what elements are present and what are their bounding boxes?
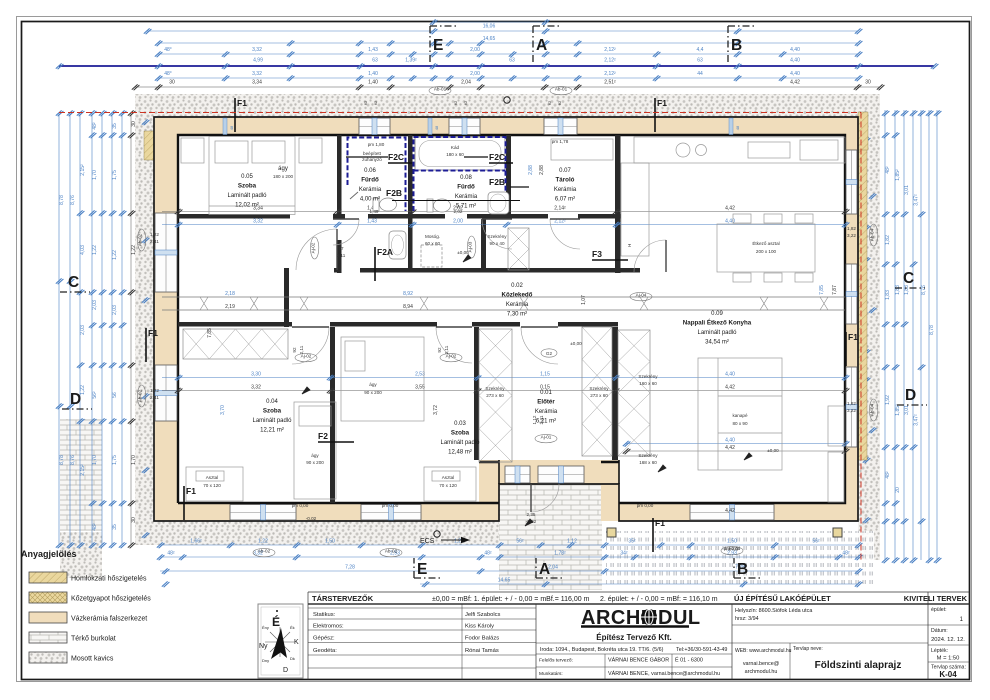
right dimension chain	[882, 110, 942, 563]
porch recess head wall	[479, 460, 619, 484]
svg-text:7,87: 7,87	[832, 285, 838, 295]
wall v3 bath008|tarolo	[506, 135, 511, 219]
F3	[592, 249, 628, 260]
svg-text:2,03: 2,03	[92, 300, 98, 310]
svg-text:-0,02: -0,02	[306, 516, 317, 521]
scattered ticks right margin	[863, 137, 877, 523]
circle vent top	[504, 97, 510, 103]
red dashed line right	[860, 113, 862, 561]
interior dim line y391	[162, 390, 845, 392]
svg-text:3,01: 3,01	[904, 185, 910, 195]
svg-text:1,40: 1,40	[368, 80, 378, 86]
svg-text:56: 56	[112, 392, 118, 398]
sideboard right 1	[828, 406, 844, 446]
svg-text:1,12: 1,12	[567, 539, 577, 545]
door room 0.04	[292, 327, 329, 364]
F1 top-left	[235, 98, 247, 132]
svg-text:H: H	[627, 244, 632, 247]
svg-text:90 x 200: 90 x 200	[364, 390, 382, 395]
gravel block bottom-left corner	[60, 532, 102, 578]
corridor beam lines	[162, 296, 845, 298]
svg-text:8,78: 8,78	[929, 325, 935, 335]
section marker C right	[895, 270, 925, 288]
window top 3	[544, 118, 577, 135]
svg-text:3,30: 3,30	[251, 372, 261, 378]
svg-text:35: 35	[112, 123, 118, 129]
svg-text:Kerámia: Kerámia	[535, 409, 558, 415]
F1 top-right	[655, 98, 667, 132]
svg-text:F2A: F2A	[377, 247, 393, 257]
bathtub 0.08	[415, 137, 505, 170]
svg-text:G2: G2	[546, 351, 553, 356]
F1 bottom-mid	[653, 518, 665, 552]
wall corridor top h2	[334, 268, 340, 273]
svg-text:4,40: 4,40	[790, 71, 800, 77]
svg-text:E: E	[433, 37, 443, 54]
legend item 5	[29, 652, 114, 663]
svg-text:4,99: 4,99	[253, 58, 263, 64]
svg-text:3,70: 3,70	[220, 405, 226, 415]
svg-text:2,88: 2,88	[528, 165, 534, 175]
svg-text:62: 62	[373, 100, 378, 105]
svg-text:Fürdő: Fürdő	[361, 177, 379, 184]
svg-text:30: 30	[865, 80, 871, 86]
insulation jog top-right	[858, 112, 868, 150]
svg-text:Nappali Étkező Konyha: Nappali Étkező Konyha	[683, 319, 752, 327]
svg-text:77: 77	[338, 246, 344, 251]
window left 1 (room 0.05)	[155, 213, 177, 292]
room label 0.06	[359, 168, 382, 203]
svg-text:F1: F1	[848, 332, 858, 342]
gravel strip left	[135, 94, 154, 545]
svg-text:0.05: 0.05	[241, 174, 253, 180]
F2B line 1	[392, 200, 520, 202]
wall junction marks top	[223, 118, 227, 135]
svg-text:Ab-01: Ab-01	[434, 87, 447, 92]
ARCHMODUL logo	[581, 607, 701, 629]
svg-text:1,22: 1,22	[150, 232, 159, 237]
svg-text:3,72: 3,72	[433, 405, 439, 415]
svg-text:Aj-01: Aj-01	[541, 435, 552, 440]
window left 2 (room 0.04)	[155, 365, 177, 421]
svg-text:Kerámia: Kerámia	[455, 194, 478, 200]
svg-text:Ab-02: Ab-02	[138, 233, 143, 246]
svg-text:62: 62	[453, 100, 458, 105]
svg-text:90 x 40: 90 x 40	[489, 241, 505, 246]
door tag Aj-01 eloter	[535, 434, 557, 442]
porch door 2	[538, 466, 584, 483]
svg-text:16,06: 16,06	[483, 24, 496, 30]
svg-text:30: 30	[131, 121, 137, 127]
svg-text:Kerámia: Kerámia	[359, 187, 382, 193]
interior dim line y378	[162, 377, 845, 379]
bath 0.08 dashed line	[414, 137, 506, 211]
svg-text:12,02 m²: 12,02 m²	[235, 203, 259, 209]
window right 2	[846, 264, 857, 324]
svg-text:pm 0,00: pm 0,00	[382, 503, 399, 508]
svg-text:8,76: 8,76	[70, 455, 76, 465]
room label 0.01 eloter	[535, 390, 558, 425]
paved walk left (terko burkolat)	[60, 419, 102, 531]
svg-text:2,03: 2,03	[112, 305, 118, 315]
svg-text:2. épület: + / - 0,00 = mBf:: 2. épület: + / - 0,00 = mBf: = 116,10 m	[600, 596, 718, 603]
compass box	[258, 604, 303, 678]
window bottom 2 (room 0.03)	[361, 505, 421, 521]
nightstand 0.05 right	[299, 138, 322, 163]
svg-text:4,40: 4,40	[790, 47, 800, 53]
svg-text:E: E	[417, 561, 427, 578]
washbasin 0.08 big	[488, 192, 509, 214]
svg-text:É: É	[272, 614, 280, 629]
svg-text:Lépték:: Lépték:	[931, 648, 948, 654]
svg-text:48²: 48²	[92, 122, 98, 130]
door eloter	[521, 327, 558, 364]
svg-text:Tel:+36/30-591-43-49: Tel:+36/30-591-43-49	[676, 647, 727, 653]
door room 0.03	[436, 327, 472, 363]
svg-text:Aj-04: Aj-04	[636, 293, 647, 298]
svg-text:Asztal: Asztal	[206, 475, 219, 480]
svg-text:2,00: 2,00	[470, 71, 480, 77]
svg-text:pm 1,78: pm 1,78	[552, 139, 569, 144]
svg-text:35²: 35²	[628, 539, 636, 545]
svg-text:1,70: 1,70	[92, 170, 98, 180]
svg-text:épület:: épület:	[931, 607, 947, 613]
svg-text:1,39²: 1,39²	[405, 58, 417, 64]
svg-text:kanapé: kanapé	[732, 413, 748, 418]
svg-text:Kőzetgyapot hőszigetelés: Kőzetgyapot hőszigetelés	[71, 596, 151, 603]
svg-text:2,00: 2,00	[453, 219, 463, 225]
tarolo shelf	[551, 139, 613, 160]
szekreny 90x40 (mosdo row)	[508, 228, 529, 270]
wall tags right Ab-04	[869, 224, 877, 246]
section marker D right	[897, 387, 927, 405]
svg-text:beépített: beépített	[363, 151, 382, 156]
svg-text:3,32: 3,32	[252, 71, 262, 77]
svg-text:2,12²: 2,12²	[604, 58, 616, 64]
red dashed line top overlay	[59, 112, 861, 114]
svg-text:1,92: 1,92	[885, 395, 891, 405]
section marker A bottom	[536, 558, 564, 578]
section marker E bottom	[414, 558, 442, 578]
svg-text:F1: F1	[186, 486, 196, 496]
svg-text:56²: 56²	[516, 539, 524, 545]
north flags (M)	[463, 255, 471, 262]
svg-text:1,75: 1,75	[112, 170, 118, 180]
svg-text:Geodéta:: Geodéta:	[313, 648, 337, 654]
svg-text:4,40: 4,40	[725, 372, 735, 378]
svg-text:56²: 56²	[812, 539, 820, 545]
svg-text:3,32: 3,32	[253, 219, 263, 225]
svg-text:3,22: 3,22	[847, 233, 856, 238]
svg-text:Ék: Ék	[290, 625, 295, 630]
legend item 4	[29, 632, 116, 643]
F2 room 0.04	[318, 431, 354, 442]
tag G2	[541, 349, 557, 357]
svg-text:2,41: 2,41	[539, 415, 544, 424]
svg-text:Ab-03: Ab-03	[726, 547, 739, 552]
svg-text:Kerámia: Kerámia	[506, 302, 529, 308]
door bath 0.06	[333, 219, 359, 245]
svg-text:Felelős tervező:: Felelős tervező:	[539, 658, 573, 664]
svg-text:F1: F1	[657, 98, 667, 108]
wall v2 bath006|008	[408, 135, 413, 219]
section marker C left	[60, 274, 90, 292]
svg-text:VÁRNAI BENCE GÁBOR: VÁRNAI BENCE GÁBOR	[608, 657, 669, 664]
svg-text:Szoba: Szoba	[238, 183, 257, 190]
svg-text:ÚJ ÉPÍTÉSŰ LAKÓÉPÜLET: ÚJ ÉPÍTÉSŰ LAKÓÉPÜLET	[734, 594, 831, 603]
insulation jog top-left	[144, 131, 154, 160]
window right 3	[846, 367, 857, 447]
svg-text:Térkő burkolat: Térkő burkolat	[71, 636, 116, 643]
wall rooms/corridor h1	[178, 214, 290, 219]
svg-text:4,42: 4,42	[725, 508, 735, 514]
wardrobe kitchen side 160x60	[618, 330, 650, 456]
svg-text:168 x 60: 168 x 60	[639, 460, 657, 465]
svg-text:0.07: 0.07	[559, 168, 571, 174]
svg-text:56²: 56²	[92, 391, 98, 399]
svg-text:44: 44	[697, 71, 703, 77]
svg-text:1,83: 1,83	[895, 285, 901, 295]
porch inner edges	[499, 460, 619, 484]
washbasin wc room	[389, 231, 406, 259]
kitchen counter left return	[621, 163, 649, 256]
svg-text:63: 63	[372, 58, 378, 64]
svg-text:2,12²: 2,12²	[604, 47, 616, 53]
svg-text:Helyszín: 8600.Siófok Léda utc: Helyszín: 8600.Siófok Léda utca	[735, 608, 812, 614]
svg-text:WEB: www.archmodul.hu: WEB: www.archmodul.hu	[735, 648, 792, 654]
svg-text:8,78: 8,78	[59, 195, 65, 205]
svg-text:1,43: 1,43	[367, 219, 377, 225]
svg-text:Kerámia: Kerámia	[554, 187, 577, 193]
room label 0.08	[455, 175, 478, 210]
bed room 0.05	[209, 137, 295, 215]
svg-text:Szekrény: Szekrény	[638, 453, 658, 458]
svg-text:1,49: 1,49	[370, 209, 379, 214]
insulation band outside right wall	[858, 117, 867, 460]
svg-text:Kiss Károly: Kiss Károly	[465, 624, 494, 630]
room label 0.02 corridor	[502, 283, 533, 318]
legend item 3	[29, 612, 147, 623]
svg-text:Ny: Ny	[259, 643, 268, 650]
wall v8 room003|eloter	[474, 327, 479, 460]
room label 0.04	[252, 399, 292, 434]
door bath 0.08	[482, 219, 512, 249]
svg-text:14,65: 14,65	[498, 578, 511, 584]
bottom dimension chain	[157, 539, 863, 588]
exterior wall bottom-left wing	[154, 503, 499, 521]
svg-text:pm 0,00: pm 0,00	[637, 503, 654, 508]
svg-text:F2: F2	[318, 431, 328, 441]
svg-text:VÁRNAI BENCE, varnai.bence@arc: VÁRNAI BENCE, varnai.bence@archmodul.hu	[608, 670, 720, 677]
svg-text:1,70: 1,70	[131, 455, 137, 465]
kitchen dim pair y444	[626, 443, 845, 445]
svg-text:2,11: 2,11	[337, 253, 346, 258]
svg-text:F2B: F2B	[489, 177, 505, 187]
svg-text:92: 92	[437, 347, 442, 353]
wardrobe room 0.03 / eloter left (273x60)	[479, 329, 512, 462]
bed room 0.03	[341, 337, 424, 421]
svg-text:1,85²: 1,85²	[895, 169, 901, 181]
svg-text:160 x 60: 160 x 60	[639, 381, 657, 386]
svg-text:2,00: 2,00	[470, 47, 480, 53]
svg-text:F1: F1	[237, 98, 247, 108]
svg-text:4,03: 4,03	[80, 245, 86, 255]
beam cross marks	[200, 297, 208, 310]
svg-text:2,04: 2,04	[461, 80, 471, 86]
svg-text:2,88: 2,88	[539, 165, 545, 175]
nightstand 0.05 left	[181, 138, 204, 163]
svg-text:1,43: 1,43	[368, 47, 378, 53]
svg-text:2,15²: 2,15²	[80, 464, 86, 476]
svg-text:Dátum:: Dátum:	[931, 628, 948, 634]
svg-text:0.01: 0.01	[540, 390, 552, 396]
legend item 1	[29, 572, 147, 583]
svg-text:2,15²: 2,15²	[80, 164, 86, 176]
sideboard right 2	[828, 452, 844, 502]
svg-text:1,22: 1,22	[150, 388, 159, 393]
svg-text:Iroda: 1094., Budapest, Bokrét: Iroda: 1094., Budapest, Bokréta utca 19.…	[540, 647, 664, 653]
svg-text:Ény: Ény	[262, 625, 269, 630]
svg-text:60 x 60: 60 x 60	[425, 241, 441, 246]
svg-text:4,42: 4,42	[725, 385, 735, 391]
desk room 0.03	[424, 467, 476, 501]
svg-text:3,01: 3,01	[904, 405, 910, 415]
svg-text:A: A	[539, 561, 550, 578]
svg-text:Jelfi Szabolcs: Jelfi Szabolcs	[465, 612, 501, 618]
svg-text:4,40: 4,40	[725, 438, 735, 444]
legend item 2	[29, 592, 151, 603]
section marker B top	[728, 26, 756, 62]
svg-text:1,66²: 1,66²	[190, 539, 202, 545]
wall v3b szekreny niche	[481, 219, 486, 268]
svg-text:2,11: 2,11	[444, 345, 449, 354]
svg-text:Tároló: Tároló	[556, 177, 575, 184]
svg-text:hrsz: 3/94: hrsz: 3/94	[735, 616, 759, 622]
exterior wall left	[154, 117, 178, 521]
top dimension chain	[56, 19, 939, 90]
door tag Aj-02 (0.03)	[440, 353, 462, 361]
svg-text:2,02: 2,02	[454, 209, 463, 214]
svg-text:1,22: 1,22	[112, 250, 118, 260]
svg-text:35: 35	[112, 524, 118, 530]
svg-text:48²: 48²	[167, 551, 175, 557]
svg-text:1,22: 1,22	[258, 539, 268, 545]
svg-text:1,82: 1,82	[885, 235, 891, 245]
svg-text:34,54 m²: 34,54 m²	[705, 340, 729, 346]
svg-text:É 01 - 6300: É 01 - 6300	[675, 657, 703, 664]
svg-text:34²: 34²	[620, 551, 628, 557]
svg-text:±0,00: ±0,00	[570, 341, 582, 346]
svg-text:14,65: 14,65	[483, 36, 496, 42]
svg-text:D: D	[283, 667, 288, 674]
svg-text:Vázkerámia falszerkezet: Vázkerámia falszerkezet	[71, 616, 147, 623]
svg-text:3,32: 3,32	[252, 47, 262, 53]
svg-text:7,85: 7,85	[819, 285, 825, 295]
svg-text:48²: 48²	[842, 551, 850, 557]
window right 1	[846, 150, 857, 214]
F2C line 2	[464, 156, 488, 158]
room label 0.09 kitchen	[683, 311, 752, 346]
svg-text:1,82: 1,82	[847, 401, 856, 406]
title block	[308, 592, 970, 680]
svg-text:Építész Tervező Kft.: Építész Tervező Kft.	[596, 633, 671, 642]
svg-text:62: 62	[363, 100, 368, 105]
svg-text:4,4: 4,4	[697, 47, 704, 53]
svg-text:2,12²: 2,12²	[604, 71, 616, 77]
wall v4 tarolo|kitchen	[615, 135, 621, 273]
svg-text:Munkatárs:: Munkatárs:	[539, 671, 563, 677]
svg-text:1,22: 1,22	[92, 245, 98, 255]
svg-text:Előtér: Előtér	[537, 399, 555, 406]
svg-text:zuhanyzó: zuhanyzó	[362, 157, 382, 162]
svg-text:Földszinti alaprajz: Földszinti alaprajz	[815, 660, 902, 671]
red dashed line right overlay	[860, 113, 862, 561]
porch door 1	[505, 466, 530, 483]
svg-text:Fürdő: Fürdő	[457, 184, 475, 191]
svg-text:D: D	[905, 387, 916, 404]
svg-text:Ab-01: Ab-01	[555, 87, 568, 92]
svg-text:6,07 m²: 6,07 m²	[555, 197, 575, 203]
svg-text:TÁRSTERVEZŐK: TÁRSTERVEZŐK	[312, 594, 374, 603]
svg-text:7,85: 7,85	[207, 328, 213, 338]
porch paving bricks	[499, 484, 602, 590]
svg-text:Fodor Balázs: Fodor Balázs	[465, 636, 499, 642]
svg-text:A: A	[536, 37, 547, 54]
svg-text:KIVITELI TERVEK: KIVITELI TERVEK	[904, 594, 968, 603]
svg-text:2,14²: 2,14²	[554, 206, 566, 212]
svg-text:1,50: 1,50	[325, 539, 335, 545]
svg-text:48²: 48²	[885, 471, 891, 479]
svg-text:K-04: K-04	[939, 670, 957, 679]
svg-text:48°: 48°	[164, 47, 172, 53]
svg-text:48²: 48²	[484, 551, 492, 557]
svg-text:7,28: 7,28	[345, 565, 355, 571]
dining table	[717, 214, 815, 282]
svg-text:92: 92	[292, 347, 297, 353]
exterior wall bottom-right wing	[601, 503, 858, 521]
svg-text:Rónai Tamás: Rónai Tamás	[465, 648, 499, 654]
room label 0.03	[440, 421, 480, 456]
wall v9 eloter|kitchen	[612, 327, 618, 460]
svg-text:pm 1,80: pm 1,80	[368, 142, 385, 147]
shower head symbol	[350, 192, 358, 199]
entrance door porch	[531, 484, 559, 512]
svg-text:Ab-04: Ab-04	[870, 403, 875, 416]
svg-text:Laminált padló: Laminált padló	[697, 330, 737, 336]
porch recess right wall	[601, 460, 619, 521]
washing machine dashed	[421, 245, 442, 267]
svg-text:0.02: 0.02	[511, 283, 523, 289]
svg-text:Ab-02: Ab-02	[385, 549, 398, 554]
svg-text:Anyagjelölés: Anyagjelölés	[21, 549, 77, 559]
svg-text:±0,00 = mBf: 1. épület: + / -: ±0,00 = mBf: 1. épület: + / - 0,00 = mBf…	[432, 596, 590, 603]
svg-text:B: B	[737, 561, 748, 578]
exterior wall top	[154, 117, 858, 135]
exterior wall right	[845, 117, 858, 521]
svg-text:Laminált padló: Laminált padló	[227, 193, 267, 199]
svg-text:1,85²: 1,85²	[895, 404, 901, 416]
F2A	[375, 247, 393, 281]
svg-text:2,53: 2,53	[415, 372, 425, 378]
porch recess left wall	[479, 460, 499, 521]
svg-text:1,12: 1,12	[532, 415, 537, 424]
svg-text:2,41: 2,41	[150, 239, 159, 244]
svg-text:2,35: 2,35	[527, 512, 536, 517]
svg-text:180 x 60: 180 x 60	[446, 152, 464, 157]
wall v6 mosdo divider	[408, 219, 413, 268]
section marker B bottom	[734, 558, 762, 578]
svg-text:70 x 120: 70 x 120	[203, 483, 221, 488]
